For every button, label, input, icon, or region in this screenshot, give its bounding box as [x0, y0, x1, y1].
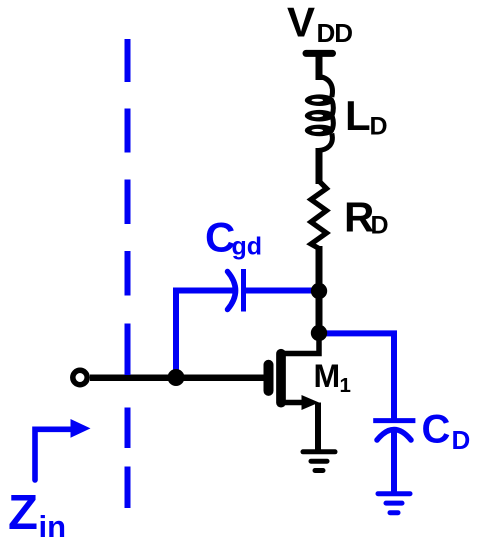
svg-text:in: in — [39, 509, 67, 544]
capacitor CD curved plate — [377, 430, 411, 441]
label Cgd — [205, 214, 262, 261]
wire resistor to drain node — [316, 246, 323, 333]
wire gate node to Cgd — [176, 291, 233, 378]
inductor LD — [319, 77, 334, 151]
label RD — [344, 194, 389, 241]
Zin arrow — [35, 429, 72, 480]
wire input to gate — [90, 375, 266, 382]
node A (Cgd to drain) — [311, 283, 327, 299]
node C (gate) — [168, 369, 185, 386]
ground (CD) — [378, 494, 410, 513]
capacitor Cgd straight plate — [241, 269, 246, 312]
svg-text:M: M — [314, 358, 341, 394]
svg-text:V: V — [287, 0, 315, 46]
svg-text:gd: gd — [232, 233, 263, 261]
transistor M1 source lead — [283, 400, 305, 406]
label Zin — [8, 486, 66, 544]
transistor M1 source arrow — [302, 395, 320, 410]
svg-text:1: 1 — [340, 374, 351, 397]
wire inductor to resistor — [316, 148, 323, 184]
wire source to ground — [315, 403, 321, 453]
capacitor Cgd curved plate — [228, 272, 236, 310]
wire node B to CD — [322, 333, 394, 421]
input terminal — [73, 370, 87, 384]
label LD — [345, 92, 388, 141]
svg-text:L: L — [345, 92, 371, 139]
svg-text:C: C — [422, 408, 451, 452]
svg-text:D: D — [371, 212, 389, 240]
node B (drain / CD) — [311, 325, 327, 341]
label CD — [422, 408, 471, 455]
wire Cgd to node A — [244, 288, 316, 294]
capacitor CD straight plate — [373, 418, 415, 423]
svg-text:D: D — [452, 425, 471, 455]
svg-text:DD: DD — [317, 18, 353, 48]
wire CD to ground — [391, 429, 397, 494]
resistor RD — [311, 181, 327, 249]
dashed reference line (Zin plane) — [125, 39, 131, 508]
label VDD — [287, 0, 352, 48]
power rail bar VDD — [306, 50, 333, 57]
transistor M1 gate bar — [264, 365, 274, 391]
label M1 — [314, 358, 351, 397]
wire VDD to inductor — [316, 53, 323, 80]
svg-text:D: D — [370, 113, 388, 141]
wire drain lead — [284, 333, 319, 354]
ground (source) — [303, 452, 335, 471]
svg-text:Z: Z — [8, 486, 38, 540]
transistor M1 channel bar — [276, 354, 286, 403]
